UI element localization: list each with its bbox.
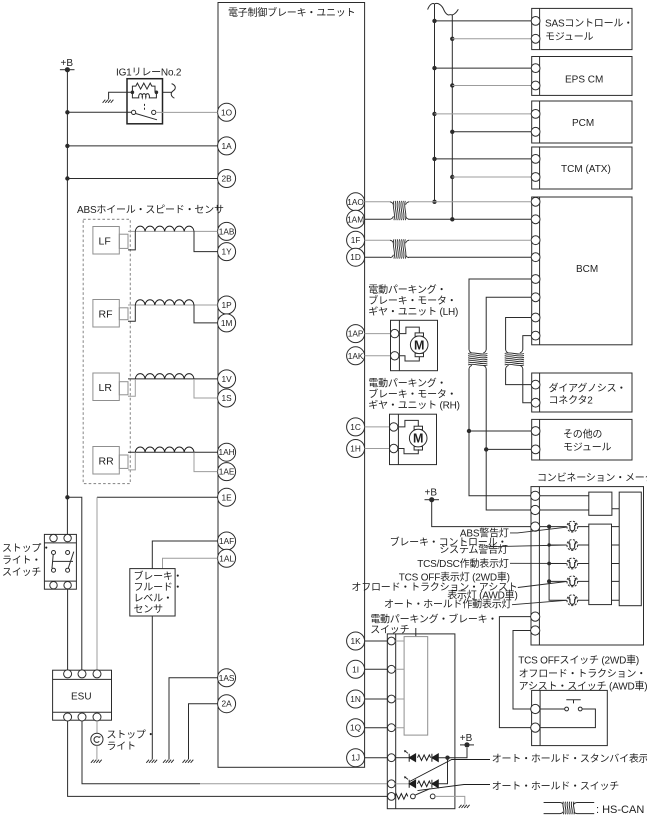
- wire: CAN bus H vertical (left) with break wave: [428, 4, 435, 202]
- wire: pin 1E to ESU pin3 drop: [97, 496, 218, 498]
- ground (stop light): [91, 760, 102, 763]
- pin 1AO: [347, 193, 365, 211]
- svg-text:2A: 2A: [222, 699, 233, 709]
- label: stop light switch: [2, 543, 51, 579]
- leader ABS warning light: [510, 527, 566, 533]
- label: brake control system warning light: [390, 535, 508, 556]
- svg-text:1AH: 1AH: [219, 447, 235, 457]
- svg-text:電動パーキング・: 電動パーキング・: [368, 377, 446, 390]
- svg-text:モジュール: モジュール: [545, 32, 593, 43]
- node: bus taps (dots): [432, 19, 454, 222]
- wire: stop light switch to ESU pin1: [67, 589, 69, 670]
- twisted pair (1F/1D): [390, 239, 409, 258]
- wire: RF sensor signal (straight): [128, 304, 218, 306]
- wire: BCM pin6 drop to meter (CAN): [486, 297, 531, 510]
- wires: switch rows 1-4 to block: [395, 641, 404, 728]
- resistor (relay parallel resistor): [132, 83, 155, 92]
- wire: pin 1H to RH motor unit: [365, 448, 390, 450]
- svg-text:LR: LR: [99, 382, 113, 394]
- svg-text:オート・ホールド作動表示灯: オート・ホールド作動表示灯: [384, 598, 512, 611]
- node junction +B/1A: [65, 144, 69, 148]
- leader TCS/DSC indicator: [510, 562, 566, 564]
- wire: ESU bottom pin2 to park brake switch (upper run): [82, 721, 200, 784]
- svg-text:ストップ・: ストップ・: [107, 729, 156, 741]
- svg-text:オート・ホールド・スイッチ: オート・ホールド・スイッチ: [492, 781, 620, 793]
- inductor: LF twisted cable loops: [135, 226, 194, 231]
- svg-text:IG1リレーNo.2: IG1リレーNo.2: [116, 68, 182, 79]
- node: relay coil right terminal: [155, 91, 159, 95]
- switch: auto hold switch contact: [411, 789, 436, 799]
- wire: bus to SAS pin2: [452, 38, 531, 40]
- wire: pin 2A to ground: [189, 704, 218, 760]
- svg-text:スイッチ: スイッチ: [2, 567, 41, 579]
- pin 1C: [347, 418, 365, 436]
- svg-text:+B: +B: [425, 488, 438, 499]
- pin 1J: [347, 749, 365, 767]
- wire: to other modules pin1: [469, 430, 531, 432]
- wire: LF sensor signal (straight): [128, 230, 218, 232]
- svg-text:コネクタ2: コネクタ2: [549, 395, 594, 407]
- pin 1AS: [218, 669, 236, 687]
- svg-text:センサ: センサ: [134, 604, 164, 616]
- node: relay coil left terminal: [131, 91, 135, 95]
- wire: brake fluid sensor to ground: [151, 616, 153, 760]
- switch: stop light switch box: [44, 534, 76, 589]
- lamp: auto hold indicator light: [567, 595, 578, 606]
- svg-text:1I: 1I: [352, 664, 359, 674]
- label: stop light: [107, 729, 156, 753]
- wire: RR sensor return with twisted loop: [128, 452, 218, 471]
- lamp: stop light bulb: [91, 733, 103, 745]
- svg-text:ダイアグノシス・: ダイアグノシス・: [549, 382, 627, 395]
- svg-text:2B: 2B: [222, 174, 233, 184]
- wire: +B rail down to stop light switch: [66, 497, 68, 534]
- svg-text:1K: 1K: [351, 636, 362, 646]
- svg-text:レベル・: レベル・: [134, 593, 173, 605]
- wire: +B vertical rail: [66, 70, 68, 498]
- svg-text:1J: 1J: [351, 753, 360, 763]
- switch U: TCS OFF switch box: [531, 690, 608, 745]
- leader auto hold indicator: [512, 600, 566, 604]
- resistor (row7 auto hold switch): [395, 794, 408, 800]
- node junction: other modules tap 1: [467, 429, 471, 433]
- label: offroad traction assist indicator: [351, 582, 517, 602]
- svg-text:1S: 1S: [222, 393, 233, 403]
- wire: LR sensor signal (straight): [128, 378, 218, 380]
- sensor LF: ABS wheel speed sensor: [93, 227, 128, 255]
- svg-text:M: M: [414, 338, 424, 352]
- sensor RF: ABS wheel speed sensor: [93, 300, 128, 328]
- wire: BCM pin5 drop to meter (CAN): [469, 279, 531, 496]
- wire: lamp bus rows to bulbs: [549, 545, 567, 581]
- leader tick: park brake switch: [415, 628, 417, 637]
- wire: pin 1Q to switch: [365, 727, 388, 729]
- pin 1M: [218, 314, 236, 332]
- svg-text:オフロード・トラクション・: オフロード・トラクション・: [519, 668, 646, 680]
- wire: meter CAN pins to IC: [540, 496, 619, 510]
- wire: bulb to ground: [96, 745, 98, 759]
- svg-text:EPS CM: EPS CM: [565, 75, 603, 86]
- wire: pin 1J to switch: [365, 757, 388, 759]
- relay U: IG1 relay No.2 box: [127, 79, 163, 124]
- wire: +B to relay switch: [67, 111, 131, 113]
- svg-text:1AE: 1AE: [219, 467, 235, 477]
- wire: bus to EPS pin2: [452, 85, 531, 87]
- pin 1E: [218, 488, 236, 506]
- pin 1AM: [347, 210, 365, 228]
- svg-text:: HS-CAN: : HS-CAN: [596, 804, 644, 816]
- pin 1AL: [218, 549, 236, 567]
- wire: ESU pin3 to stop light bulb: [96, 721, 98, 733]
- leader auto hold standby indicator: [410, 760, 490, 782]
- wire: pin 1C to RH motor unit: [365, 426, 390, 428]
- LED: auto hold standby indicator (row 1J): [405, 751, 416, 762]
- svg-text:BCM: BCM: [576, 264, 598, 275]
- svg-text:1AB: 1AB: [219, 226, 235, 236]
- svg-text:ESU: ESU: [71, 692, 92, 703]
- legend: HS-CAN twisted pair: [544, 802, 645, 816]
- diode (row6): [432, 780, 438, 788]
- resistor (row6): [417, 781, 430, 787]
- switch U: electric parking brake switch box: [387, 634, 455, 809]
- leader brake control warning light: [487, 545, 566, 547]
- svg-text:1AS: 1AS: [219, 673, 235, 683]
- leader TCS OFF indicator: [518, 582, 567, 588]
- wire: to other modules pin2: [486, 448, 531, 450]
- wire: pin 1AK to LH motor unit: [365, 355, 391, 357]
- pin 1Y: [218, 243, 236, 261]
- wire: +B junction to ESU pin2 drop: [67, 497, 81, 670]
- meter internal right block: [619, 492, 641, 606]
- svg-text:SASコントロール・: SASコントロール・: [545, 19, 633, 30]
- wire: pin 1AS to ground: [169, 678, 218, 760]
- svg-text:1AO: 1AO: [347, 197, 364, 207]
- wire: ESU bottom pin1 to park brake switch (lower run): [68, 721, 388, 796]
- svg-text:1M: 1M: [221, 318, 233, 328]
- park brake switch internal resistor block: [404, 637, 428, 736]
- svg-text:オート・ホールド・スタンバイ表示灯: オート・ホールド・スタンバイ表示灯: [492, 752, 647, 765]
- svg-text:ギヤ・ユニット (LH): ギヤ・ユニット (LH): [368, 306, 458, 318]
- diode (row 1J): [432, 754, 438, 762]
- svg-text:TCS/DSC作動表示灯: TCS/DSC作動表示灯: [417, 557, 509, 570]
- wire: +B to pin 2B: [67, 178, 217, 180]
- svg-text:1A: 1A: [222, 141, 233, 151]
- pin 1F: [347, 231, 365, 249]
- sensor: brake fluid level sensor box: [130, 569, 183, 616]
- wire: meter lamp bus vertical: [540, 527, 567, 601]
- node junctions on lamp bus: [547, 525, 551, 584]
- op U: BCM: [531, 197, 632, 345]
- svg-text:RF: RF: [99, 308, 113, 320]
- pin 1AK: [347, 347, 365, 365]
- pin 1AF: [218, 532, 236, 550]
- pin 1AP: [347, 325, 365, 343]
- svg-text:1O: 1O: [221, 107, 233, 117]
- wire: pin 1AL to brake fluid sensor: [163, 558, 218, 568]
- node junction +B/relay: [65, 110, 69, 114]
- wire: relay coil to ground: [109, 92, 133, 99]
- svg-text:PCM: PCM: [572, 118, 594, 129]
- svg-text:コンビネーション・メータ: コンビネーション・メータ: [537, 472, 647, 484]
- svg-text:ブレーキ・モータ・: ブレーキ・モータ・: [368, 294, 456, 307]
- lamp: ABS warning light: [567, 521, 578, 532]
- ground (auto hold switch): [459, 805, 470, 808]
- op ESU box: [53, 670, 112, 721]
- wire: +B to meter lamp feed pin: [432, 500, 531, 527]
- pin 1P: [218, 296, 236, 314]
- ABS sensor group dashed box: [83, 219, 130, 483]
- wire: bus to PCM pin1: [435, 113, 532, 115]
- op U: TCM (ATX): [531, 147, 632, 189]
- power +B terminal (park brake switch): [460, 733, 474, 748]
- wire: pin 1AF to brake fluid sensor: [152, 541, 217, 569]
- wire: BCM pin7 drop to diagnosis connector: [506, 318, 532, 385]
- wire: auto hold switch to ground: [435, 796, 465, 804]
- ground (1AS): [163, 760, 174, 763]
- inductor: RR twisted cable loops: [135, 447, 194, 452]
- meter internal IC block (top): [589, 492, 612, 515]
- lamp: brake control system warning light: [567, 540, 578, 551]
- svg-text:ブレーキ・モータ・: ブレーキ・モータ・: [368, 388, 456, 401]
- svg-text:LF: LF: [99, 235, 111, 247]
- wire: LR sensor return with twisted loop: [128, 379, 218, 398]
- wire: meter pin to TCS OFF switch (inner): [513, 631, 531, 710]
- svg-text:1F: 1F: [351, 235, 361, 245]
- wire: link row5 to row6: [438, 758, 447, 784]
- wire: RR sensor signal (straight): [128, 451, 218, 453]
- svg-text:1H: 1H: [350, 444, 361, 454]
- sensor RR: ABS wheel speed sensor: [93, 447, 128, 475]
- inductor: LR twisted cable loops: [135, 374, 194, 379]
- op U: EPS CM: [531, 57, 632, 96]
- wire: LF sensor return with twisted loop: [128, 231, 218, 251]
- wire: pin 1F to BCM: [365, 239, 532, 241]
- wire: relay coil right lead continuation squiggle: [163, 91, 172, 93]
- motor unit M1: parking brake motor gear unit LH: [391, 320, 438, 370]
- op U: combination meter box: [531, 487, 644, 645]
- pin 1A: [218, 137, 236, 155]
- svg-text:その他の: その他の: [563, 428, 602, 441]
- pin 1K: [347, 632, 365, 650]
- wire: relay armature dashed link: [144, 104, 146, 111]
- svg-text:1D: 1D: [350, 252, 361, 262]
- wire: RF sensor return with twisted loop: [128, 305, 218, 323]
- svg-text:電動パーキング・ブレーキ・: 電動パーキング・ブレーキ・: [370, 613, 497, 626]
- twisted pair (BCM to meter): [468, 350, 487, 369]
- wire: diode to +B: [438, 748, 467, 758]
- node junction: +B rail bottom / stop light switch feed: [65, 495, 69, 499]
- ground (relay coil): [103, 100, 114, 103]
- pin 1N: [347, 690, 365, 708]
- wire: pin 1K to switch: [365, 640, 388, 642]
- svg-text:1AM: 1AM: [347, 214, 364, 224]
- svg-text:システム警告灯: システム警告灯: [439, 543, 507, 556]
- wire: relay switch to pin 1O: [156, 111, 218, 113]
- pin 2A: [218, 695, 236, 713]
- pin 1AE: [218, 463, 236, 481]
- svg-text:1P: 1P: [222, 300, 233, 310]
- svg-text:1E: 1E: [222, 492, 233, 502]
- svg-text:1N: 1N: [350, 694, 361, 704]
- wire: pin 1D to BCM: [365, 256, 532, 258]
- svg-text:M: M: [413, 432, 423, 446]
- node junction: other modules tap 2: [484, 447, 488, 451]
- svg-text:1V: 1V: [222, 374, 233, 384]
- ground (2A): [183, 760, 194, 763]
- inductor: relay coil: [132, 92, 156, 98]
- svg-text:TCS OFFスイッチ (2WD車): TCS OFFスイッチ (2WD車): [518, 654, 639, 667]
- svg-text:モジュール: モジュール: [563, 443, 611, 454]
- svg-text:電動パーキング・: 電動パーキング・: [368, 283, 446, 296]
- LED: auto hold switch illumination (row6): [405, 777, 416, 788]
- pin 1D: [347, 248, 365, 266]
- label: TCS OFF switch (2WD) / offroad traction assist switch (AWD): [518, 654, 647, 693]
- twisted pair (BCM to diagnosis connector): [505, 350, 524, 369]
- pin 1Q: [347, 719, 365, 737]
- svg-text:1AK: 1AK: [348, 351, 364, 361]
- pin 2B: [218, 170, 236, 188]
- op U: SAS control module: [531, 8, 633, 49]
- pin 1O: [218, 103, 236, 121]
- wire: bus to TCM pin2: [452, 176, 531, 178]
- pin 1V: [218, 370, 236, 388]
- svg-text:1AL: 1AL: [219, 553, 234, 563]
- wire: pin 1N to switch: [365, 698, 388, 700]
- op U: other modules (その他のモジュール): [531, 419, 632, 460]
- motor unit M2: parking brake motor gear unit RH: [390, 414, 437, 464]
- svg-text:ギヤ・ユニット (RH): ギヤ・ユニット (RH): [368, 400, 459, 412]
- twisted pair (1AO/1AM): [390, 201, 409, 220]
- wire: pin 1AP to LH motor unit: [365, 333, 391, 335]
- svg-text:+B: +B: [460, 733, 473, 744]
- wire: pin 1AM to BCM (CAN L): [365, 218, 532, 220]
- svg-text:1Q: 1Q: [350, 723, 362, 733]
- svg-text:ブレーキ・: ブレーキ・: [134, 570, 183, 583]
- svg-text:電子制御ブレーキ・ユニット: 電子制御ブレーキ・ユニット: [228, 6, 355, 19]
- wire: row 1J to LED1: [395, 757, 409, 759]
- svg-text:TCS OFF表示灯 (2WD車): TCS OFF表示灯 (2WD車): [399, 571, 510, 584]
- wire: row6 feed to LED2: [395, 783, 409, 785]
- power +B terminal (top left): [60, 58, 75, 72]
- lamp: TCS/DSC indicator light: [567, 558, 578, 569]
- svg-text:1AP: 1AP: [348, 329, 364, 339]
- ground (brake fluid sensor): [146, 760, 157, 763]
- svg-text:RR: RR: [99, 455, 115, 467]
- resistor (row 1J): [417, 755, 430, 761]
- svg-text:ストップ・: ストップ・: [2, 543, 51, 555]
- svg-text:ライト・: ライト・: [2, 555, 41, 567]
- sensor LR: ABS wheel speed sensor: [93, 373, 128, 401]
- pin 1S: [218, 389, 236, 407]
- leader auto hold switch: [418, 785, 491, 791]
- op unit: electronic brake control unit box (電子制御ブレーキ・ユニット): [218, 3, 365, 768]
- pin 1H: [347, 440, 365, 458]
- node junction row1J/+link: [445, 756, 449, 760]
- wire: bus to PCM pin2: [452, 131, 531, 133]
- svg-text:TCM (ATX): TCM (ATX): [561, 164, 611, 175]
- wire: meter pin to TCS OFF switch (outer): [499, 617, 531, 728]
- wire: pin 1AO to BCM (CAN H): [365, 201, 532, 203]
- svg-text:フルード・: フルード・: [134, 583, 183, 594]
- op U: PCM: [531, 101, 632, 143]
- wire: pin 1I to switch: [365, 668, 388, 670]
- wire: BCM pin8 drop to diagnosis connector: [523, 336, 531, 403]
- wire: bus to TCM pin1: [435, 158, 532, 160]
- label: electric parking brake motor gear unit (RH): [368, 377, 459, 412]
- inductor: RF twisted cable loops: [135, 300, 194, 305]
- node junction +B/2B: [65, 176, 69, 180]
- svg-text:1C: 1C: [350, 422, 361, 432]
- wire: bus to EPS pin1: [435, 67, 532, 69]
- power +B terminal (combination meter): [425, 488, 440, 503]
- wire: bus to SAS pin1: [435, 20, 532, 22]
- svg-text:ライト: ライト: [107, 741, 136, 753]
- meter internal lamp driver block: [589, 524, 612, 605]
- pin 1AH: [218, 443, 236, 461]
- svg-text:1Y: 1Y: [222, 247, 233, 257]
- pin 1I: [347, 660, 365, 678]
- svg-text:ABSホイール・スピード・センサ: ABSホイール・スピード・センサ: [77, 204, 224, 216]
- wire: bulbs to driver block and block ticks: [578, 527, 589, 601]
- switch: relay contact: [132, 110, 158, 120]
- lamp: TCS OFF / offroad traction indicator light: [567, 576, 578, 587]
- label: electric parking brake motor gear unit (LH): [368, 283, 458, 318]
- pin 1AB: [218, 222, 236, 240]
- svg-text:1AF: 1AF: [219, 536, 234, 546]
- op U: diagnosis connector 2 (ダイアグノシス・コネクタ2): [531, 373, 632, 412]
- wire: +B to pin 1A: [67, 145, 217, 147]
- label: electric parking brake switch: [370, 613, 497, 637]
